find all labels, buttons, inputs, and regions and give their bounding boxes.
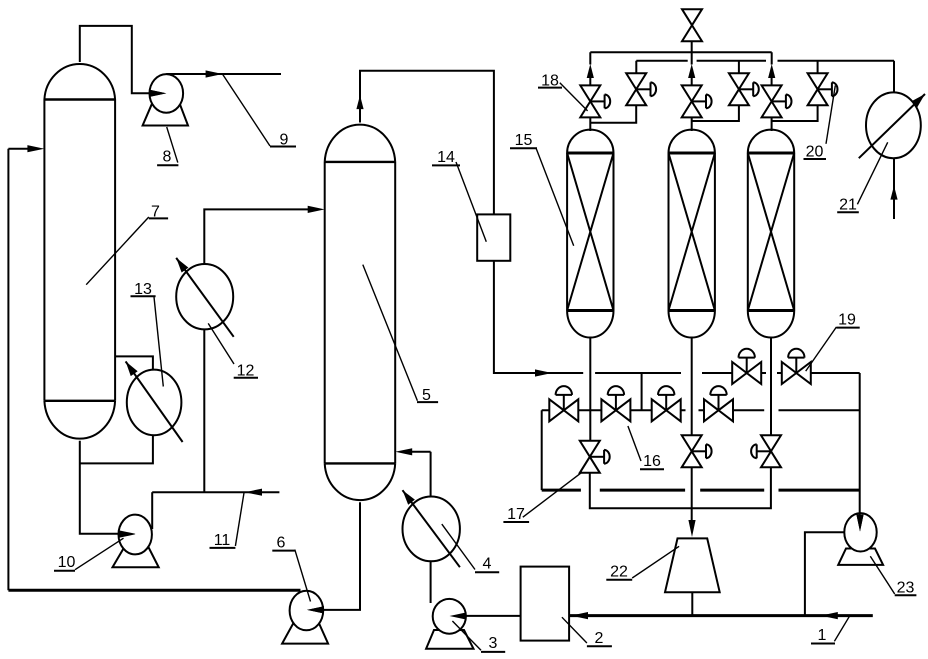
wire valve B returns [590, 105, 817, 123]
valve V4 [704, 386, 733, 421]
svg-text:10: 10 [58, 554, 76, 571]
wire hopper drain [691, 592, 693, 615]
valve 17 (L1) [580, 441, 610, 473]
valve V3 [652, 386, 681, 421]
label 16 [628, 426, 664, 470]
wire L2 valve to hopper [691, 467, 693, 521]
adsorber 15 (no.1) [567, 130, 613, 338]
label 5 [363, 265, 438, 404]
wire box14 down and feed line [494, 261, 583, 373]
svg-text:20: 20 [806, 144, 824, 161]
svg-text:11: 11 [214, 532, 231, 549]
svg-text:4: 4 [483, 556, 492, 573]
wire bottom feed line stream 1 [569, 614, 873, 617]
valve 20 (B3) [808, 73, 838, 105]
label 4 [442, 524, 499, 572]
label 1 [811, 616, 850, 644]
wire left rail [7, 149, 9, 591]
wire pump23 discharge [805, 532, 845, 615]
label 20 [804, 86, 836, 161]
wire stream 11 line [152, 491, 279, 493]
label 15 [510, 132, 574, 246]
label 19 [806, 312, 860, 372]
wire valve A to adsorber tops [590, 117, 771, 131]
svg-text:2: 2 [595, 630, 604, 647]
wire header2 [636, 60, 894, 62]
wire col5 bottoms to pump6 [324, 502, 360, 610]
wire pump8 outlet stream 9 [166, 73, 281, 75]
heat exchanger 4 [399, 488, 460, 568]
wire tee to valve row [641, 373, 643, 410]
heat exchanger 13 [122, 359, 182, 442]
wire bottom rail from pump6 [8, 589, 300, 592]
valve 16 (V2) [601, 386, 630, 421]
hopper 22 [665, 538, 720, 592]
valve V1 [549, 386, 578, 421]
valve A3 [762, 85, 792, 117]
label 14 [432, 149, 486, 242]
wire valve row [542, 409, 860, 411]
box 14 [477, 214, 510, 260]
pump 10 [113, 515, 159, 568]
wire blower21 inlet stub [893, 158, 895, 219]
svg-text:6: 6 [277, 535, 286, 552]
label 12 [208, 323, 258, 379]
wire manifold left rail [541, 410, 543, 490]
label 11 [210, 492, 245, 549]
svg-text:3: 3 [489, 635, 498, 652]
label 8 [157, 127, 178, 166]
wire col7 overhead to pump8 [80, 26, 151, 93]
label 23 [870, 556, 916, 596]
label 17 [503, 472, 582, 523]
label 18 [538, 73, 588, 111]
svg-text:22: 22 [610, 564, 628, 581]
column 7 [44, 64, 115, 439]
column 5 [325, 125, 396, 501]
wire col7 bottoms to pump10 [80, 441, 119, 534]
label 21 [837, 142, 888, 213]
valve TR1 [732, 349, 761, 384]
label 13 [131, 281, 164, 387]
label 3 [452, 621, 505, 652]
svg-text:16: 16 [643, 453, 661, 470]
wire riser through exch12 to col5 [204, 209, 308, 492]
valve L3 [751, 435, 781, 467]
wire col5 side feed from exch4 [412, 451, 431, 453]
label 10 [54, 538, 124, 571]
wire right rail to pump23 [859, 373, 861, 515]
adsorber (no.3) [748, 130, 794, 338]
svg-text:19: 19 [838, 312, 856, 329]
valve top center [682, 9, 702, 41]
valve 19 (TR2) [782, 349, 811, 384]
label 2 [562, 617, 612, 647]
svg-text:17: 17 [507, 506, 525, 523]
pump 6 [282, 591, 328, 644]
valve L2 [682, 435, 712, 467]
wire line A [542, 489, 860, 492]
wire header1 [590, 51, 771, 53]
wire line B [590, 467, 771, 508]
valve B2 [729, 73, 759, 105]
wire col7 side draw to exch13 [115, 356, 153, 369]
wire feed line segments [595, 372, 860, 374]
pump 3 [426, 599, 473, 649]
wire box2 to pump3 [467, 615, 521, 617]
pump 23 [838, 513, 883, 565]
wire adsorber bottoms [590, 338, 771, 441]
adsorber (no.2) [669, 130, 715, 338]
heat exchanger 12 [173, 255, 234, 336]
wire pump10 discharge [151, 492, 153, 529]
blower 21 [859, 91, 928, 158]
svg-text:21: 21 [839, 197, 857, 214]
label 6 [272, 535, 310, 602]
wire col5 overhead to box14 [360, 71, 494, 215]
label 9 [223, 74, 296, 148]
valve 18 (A1) [580, 85, 610, 117]
pump 8 [143, 74, 188, 125]
valve B1 [626, 73, 656, 105]
box 2 [521, 567, 570, 641]
valve A2 [682, 85, 712, 117]
svg-text:1: 1 [818, 627, 827, 644]
svg-text:8: 8 [163, 149, 172, 166]
wire exch13 drain [80, 435, 153, 463]
svg-text:23: 23 [897, 580, 915, 597]
wire feed into col7 [8, 148, 30, 150]
svg-text:14: 14 [437, 149, 455, 166]
svg-text:15: 15 [515, 132, 533, 149]
label 7 [86, 204, 168, 285]
label 22 [606, 546, 679, 580]
